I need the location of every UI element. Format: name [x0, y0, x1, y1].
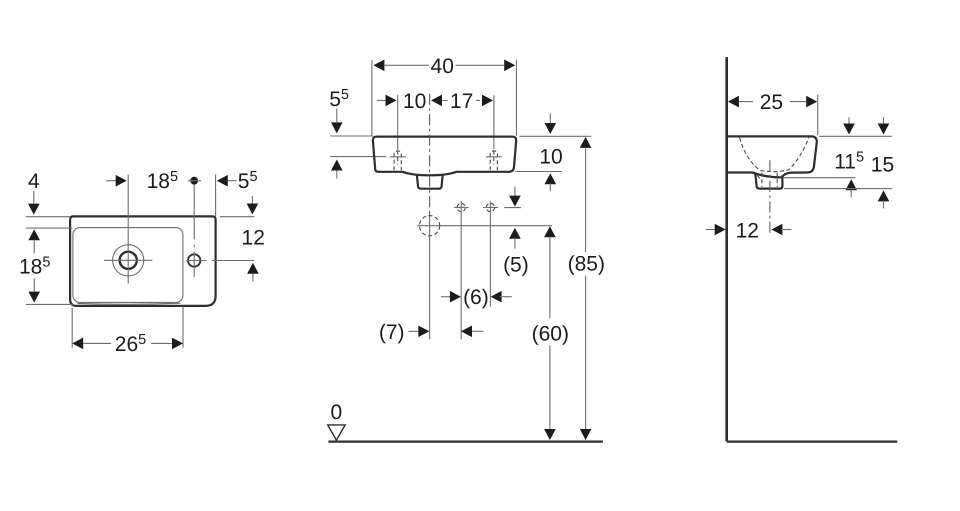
svg-text:12: 12: [242, 227, 265, 250]
dim 12 arrow down: [251, 196, 253, 204]
tap center extension line right: [212, 260, 254, 262]
dim 11-5 arrow up: [845, 179, 857, 190]
dim 18-5 left arrow down: [33, 279, 35, 292]
dim 10 right arrow up: [545, 173, 557, 184]
dim (6) arrow right: [441, 296, 452, 298]
dim 25 arrow left: [728, 96, 739, 108]
svg-text:12: 12: [736, 219, 759, 242]
svg-text:(60): (60): [532, 323, 569, 346]
dim (6) arrow left: [491, 291, 502, 303]
svg-text:17: 17: [450, 90, 473, 113]
datum triangle: [328, 425, 345, 440]
dim 25 extension line: [817, 95, 819, 136]
floor line: [328, 441, 603, 443]
drain trap dashed circle: [420, 216, 440, 236]
dim (60) line: [544, 226, 556, 237]
svg-text:25: 25: [760, 91, 783, 114]
dim 15 arrow down: [883, 117, 885, 124]
dim 18-5 top arrow right: [106, 180, 115, 182]
dim 40 arrow right: [456, 64, 505, 66]
drain pipe dashed left: [761, 173, 763, 187]
svg-text:40: 40: [431, 55, 454, 78]
dim 5-5 arrow up: [331, 160, 343, 171]
drain crosshair horizontal: [104, 259, 152, 261]
dim (5) arrow up: [509, 228, 521, 239]
bowl underside arc: [753, 173, 783, 178]
dim 4 arrow down: [33, 191, 35, 204]
dim 40 arrow left: [373, 60, 384, 72]
trap interior dashed arcs: [757, 175, 782, 179]
svg-text:(5): (5): [503, 254, 529, 277]
drain center line: [429, 94, 431, 213]
basin inner bowl (top view): [73, 228, 183, 303]
svg-text:0: 0: [330, 401, 342, 424]
dim 10 right arrow down: [549, 113, 551, 123]
fixing hole right crosshair: [486, 156, 502, 158]
bowl top extension line left: [26, 227, 72, 229]
dim 26-5 arrow right: [151, 342, 172, 344]
fixing hole extension line left: [397, 95, 399, 150]
drain outer circle: [113, 245, 144, 276]
trap bottom reference line: [784, 188, 892, 190]
bowl bottom edge line: [78, 303, 181, 304]
fixing hole level reference line: [330, 156, 386, 158]
wall line: [725, 57, 728, 441]
basin front outline: [373, 137, 516, 176]
dim (7) arrow right: [408, 330, 418, 332]
dim 26-5 extension line right: [182, 307, 184, 348]
dim (7) arrow left: [461, 326, 472, 338]
dim 12 arrow up: [247, 263, 259, 274]
drain level line: [417, 225, 552, 227]
dim 18-5 left arrow up: [28, 229, 40, 240]
rim top reference line: [330, 135, 373, 137]
rim top extension line right: [519, 135, 591, 137]
tap hole center line vertical: [193, 181, 195, 277]
dim 26-5 arrow left: [72, 338, 83, 350]
svg-text:4: 4: [28, 170, 40, 193]
supply level short line: [504, 207, 521, 209]
dim (5) arrow down: [514, 187, 516, 197]
dim 5-5 arrow left: [217, 175, 228, 187]
fixing hole extension line right: [493, 95, 495, 149]
rim right edge extension line up: [215, 174, 217, 216]
supply cross right: [486, 203, 494, 211]
dim 17 arrow left: [431, 95, 442, 107]
dim 25 arrow right: [790, 101, 806, 103]
rim bottom extension line right: [515, 171, 562, 173]
basin outer rim (top view): [70, 216, 216, 306]
dim 10 arrow right: [377, 99, 385, 101]
svg-text:10: 10: [403, 90, 426, 113]
rim top extension line left: [26, 216, 70, 218]
dim 15 arrow up: [878, 190, 890, 201]
rim top extension line right: [220, 216, 255, 218]
fixing hole slot right (dashed): [490, 151, 497, 170]
drain center line side: [769, 160, 771, 234]
dot cross arms: [188, 180, 201, 182]
svg-text:(6): (6): [463, 286, 489, 309]
supply left vertical line: [460, 201, 462, 339]
drain center line vertical: [127, 175, 129, 284]
rim top extension line side: [819, 135, 892, 137]
supply cross left: [457, 203, 465, 211]
tap hole circle: [188, 254, 200, 266]
bowl bottom extension line left: [26, 303, 74, 305]
dim 12 arrow left: [771, 224, 782, 236]
dim 5-5 arrow down: [336, 109, 338, 123]
drain inner circle: [120, 252, 137, 269]
dim dot at tap centerline: [190, 177, 198, 185]
dim 40 extension line right: [515, 60, 517, 136]
svg-text:10: 10: [539, 145, 562, 168]
floor line right: [727, 441, 898, 443]
supply right vertical line: [489, 201, 491, 307]
fixing hole left crosshair: [390, 156, 406, 158]
bowl interior dashed: [740, 138, 809, 172]
svg-text:(7): (7): [379, 321, 405, 344]
drain pipe dashed right: [776, 173, 778, 187]
fixing hole slot left (dashed): [394, 151, 401, 170]
dim 17 arrow right: [476, 99, 480, 101]
basin side outline: [727, 136, 817, 188]
svg-text:(85): (85): [568, 253, 605, 276]
dim 11-5 arrow down: [848, 117, 850, 124]
bowl underside reference line: [783, 177, 856, 179]
dim (85) line: [580, 137, 592, 148]
tap hole crosshair horizontal: [186, 260, 206, 262]
svg-text:15: 15: [871, 154, 894, 177]
dim 40 extension line left: [371, 60, 373, 136]
dim 12 arrow right: [706, 229, 716, 231]
dim 26-5 extension line left: [71, 308, 73, 348]
drain outlet front: [417, 175, 443, 188]
